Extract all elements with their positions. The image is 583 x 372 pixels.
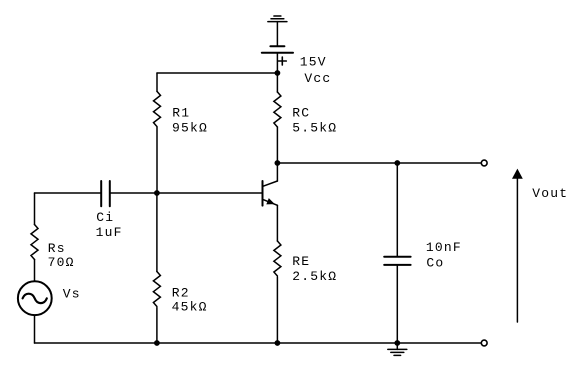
svg-text:R1: R1: [172, 106, 190, 121]
svg-text:Co: Co: [426, 255, 444, 270]
svg-text:15V: 15V: [300, 54, 327, 69]
svg-text:70Ω: 70Ω: [48, 255, 75, 270]
svg-text:1uF: 1uF: [96, 225, 123, 240]
svg-text:Vs: Vs: [63, 286, 81, 301]
svg-text:Vcc: Vcc: [304, 71, 331, 86]
svg-text:45kΩ: 45kΩ: [172, 299, 208, 314]
svg-text:RE: RE: [292, 254, 310, 269]
svg-text:Ci: Ci: [96, 210, 114, 225]
svg-text:R2: R2: [172, 285, 190, 300]
svg-text:10nF: 10nF: [426, 240, 462, 255]
svg-text:5.5kΩ: 5.5kΩ: [292, 121, 337, 136]
svg-text:RC: RC: [292, 106, 310, 121]
svg-text:2.5kΩ: 2.5kΩ: [292, 269, 337, 284]
svg-text:Vout: Vout: [532, 186, 568, 201]
svg-text:95kΩ: 95kΩ: [172, 121, 208, 136]
